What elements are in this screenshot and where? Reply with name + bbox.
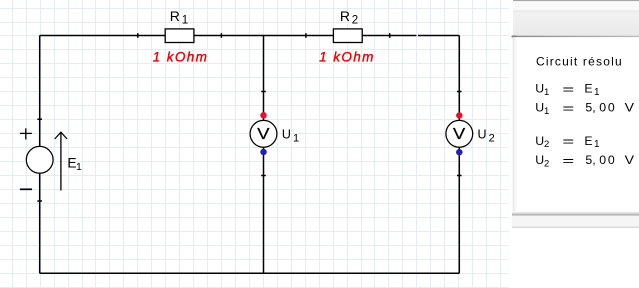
- wire right branch vertical: [458, 36, 460, 274]
- voltmeter U2 circle: [446, 120, 473, 147]
- E1 plus sign: [20, 128, 32, 139]
- wire middle branch vertical: [263, 36, 265, 274]
- right panel background: [509, 0, 639, 288]
- svg-text:1 kOhm: 1 kOhm: [319, 49, 375, 64]
- svg-text:1: 1: [293, 132, 299, 144]
- terminal tick R1 left: [137, 33, 139, 38]
- wire top horizontal: [40, 35, 460, 37]
- resistor R1 body: [165, 29, 194, 43]
- svg-text:1: 1: [594, 87, 600, 98]
- svg-text:=: =: [562, 81, 574, 96]
- svg-text:2: 2: [489, 132, 495, 144]
- scrollbar bottom line: [512, 227, 639, 229]
- svg-text:E: E: [584, 82, 592, 96]
- svg-text:1 kOhm: 1 kOhm: [153, 49, 209, 64]
- panel top border line: [513, 0, 639, 1]
- wire left vertical: [39, 36, 41, 274]
- svg-text:U: U: [282, 128, 291, 142]
- terminal tick R1 right: [220, 33, 222, 38]
- svg-text:1: 1: [544, 106, 549, 117]
- E1 direction arrow: [55, 132, 67, 191]
- wire bottom horizontal: [40, 272, 460, 274]
- svg-text:2: 2: [352, 15, 358, 27]
- E1 minus sign: [20, 188, 32, 190]
- svg-text:2: 2: [544, 159, 549, 170]
- equation row 4: U2 = 5,00 V: [535, 153, 635, 170]
- svg-text:2: 2: [544, 139, 549, 150]
- equation row 1: U1 = E1: [535, 81, 600, 98]
- svg-text:R: R: [170, 8, 180, 24]
- scrollbar track: [512, 216, 639, 227]
- resistor R2 body: [333, 29, 362, 43]
- svg-text:V: V: [625, 153, 635, 167]
- svg-text:00: 00: [599, 101, 616, 115]
- svg-text:=: =: [562, 153, 574, 168]
- equation row 3: U2 = E1: [535, 134, 600, 151]
- svg-text:00: 00: [599, 153, 616, 167]
- voltmeter U1 blue terminal dot: [260, 149, 267, 156]
- svg-text:1: 1: [76, 161, 82, 173]
- svg-text:U: U: [535, 101, 544, 115]
- svg-text:V: V: [625, 101, 635, 115]
- svg-text:1: 1: [182, 15, 188, 27]
- schematic canvas grid background: [0, 0, 509, 288]
- voltmeter U1 circle: [250, 120, 277, 147]
- scrollbar top line: [512, 214, 639, 215]
- terminal tick R2 right: [389, 33, 391, 38]
- svg-text:U: U: [478, 128, 487, 142]
- label R2: [340, 8, 358, 26]
- svg-text:=: =: [562, 134, 574, 149]
- wire joint gap: [417, 34, 418, 37]
- voltage source E1 circle: [26, 146, 53, 173]
- results box top border: [512, 36, 639, 37]
- voltmeter U1 red terminal dot: [260, 112, 267, 119]
- svg-text:V: V: [257, 126, 270, 143]
- terminal tick R2 left: [305, 33, 307, 38]
- terminal tick U1 top: [261, 91, 266, 93]
- svg-text:Circuit résolu: Circuit résolu: [536, 54, 623, 68]
- voltmeter U2 blue terminal dot: [456, 149, 463, 156]
- label E1: [67, 156, 82, 173]
- panel toolbar band: [513, 12, 639, 36]
- panel toolbar band seam: [513, 11, 639, 13]
- results box left soft border: [513, 37, 517, 213]
- svg-text:R: R: [340, 8, 350, 24]
- svg-text:U: U: [535, 134, 544, 148]
- svg-text:=: =: [562, 101, 574, 116]
- svg-text:U: U: [535, 153, 544, 167]
- label R1: [170, 8, 188, 26]
- svg-text:5,: 5,: [585, 101, 595, 115]
- terminal tick E1 top: [37, 118, 42, 120]
- svg-text:5,: 5,: [585, 153, 595, 167]
- voltmeter U2 red terminal dot: [456, 112, 463, 119]
- terminal tick E1 bottom: [37, 200, 42, 202]
- svg-text:E: E: [584, 134, 592, 148]
- label U2: [478, 128, 495, 145]
- results box corner: [512, 36, 517, 38]
- panel upper light band: [513, 1, 639, 10]
- equation row 2: U1 = 5,00 V: [535, 101, 635, 118]
- svg-text:1: 1: [544, 87, 549, 98]
- label U1: [282, 128, 299, 145]
- terminal tick U1 bottom: [261, 175, 266, 177]
- svg-text:1: 1: [594, 139, 600, 150]
- terminal tick U2 top: [457, 91, 462, 93]
- svg-text:U: U: [535, 82, 544, 96]
- scrollbar shadow: [512, 211, 639, 214]
- svg-text:V: V: [453, 126, 466, 143]
- terminal tick U2 bottom: [457, 175, 462, 177]
